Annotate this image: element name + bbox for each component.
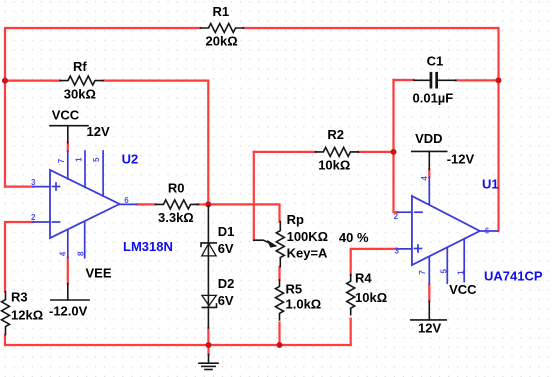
U2 pin 7 lead [67,151,69,179]
U1 pin 6 output lead [480,230,498,232]
ground [199,355,218,370]
svg-text:R3: R3 [11,290,28,305]
svg-text:3: 3 [395,246,400,255]
svg-text:Rp: Rp [287,212,304,227]
svg-text:12V: 12V [87,124,110,139]
U1 pin 7 lead [428,257,430,284]
wire top feedback right [244,28,499,231]
svg-text:30kΩ: 30kΩ [64,87,96,102]
svg-text:5: 5 [92,157,101,162]
power VCC U1 [411,282,477,335]
wire Rp bottom to R5 [278,267,280,280]
svg-text:6: 6 [485,226,490,235]
svg-text:VDD: VDD [415,131,442,146]
node R0 output junction [205,201,211,207]
svg-text:-12.0V: -12.0V [49,303,88,318]
svg-text:2: 2 [394,212,399,221]
wire U2 pin2 to R3 [5,222,33,292]
U1 pin 1 lead [463,239,465,282]
resistor R2 [315,127,358,172]
svg-text:VCC: VCC [52,108,80,123]
resistor R1 [201,4,244,48]
U2 pin 2 (-) lead [33,221,50,223]
svg-text:0.01µF: 0.01µF [413,91,454,106]
U2 plus mark [53,186,60,188]
wire R2 left [254,151,316,153]
resistor R5 [276,280,322,320]
potentiometer Rp [254,212,328,267]
svg-text:R2: R2 [327,127,344,142]
svg-text:8: 8 [76,251,85,256]
wire VCC stem U2 [67,143,69,151]
svg-text:2: 2 [31,213,36,222]
svg-text:3: 3 [31,178,36,187]
svg-text:12V: 12V [418,320,441,335]
svg-text:7: 7 [57,158,66,163]
svg-text:R4: R4 [355,270,372,285]
svg-text:6: 6 [124,196,129,205]
svg-text:LM318N: LM318N [123,239,173,254]
U1 pin 2 (-) lead [398,211,412,213]
wire Rp wiper [253,152,255,240]
svg-text:D2: D2 [218,276,235,291]
resistor Rf [60,59,103,102]
U2 pin 3 (+) lead [33,186,50,188]
wire node to Rp top [208,204,279,221]
wire U2 output [137,203,156,205]
svg-text:20kΩ: 20kΩ [206,34,238,49]
svg-text:1: 1 [75,157,84,162]
wire U1 pin7 to VCC [428,284,430,301]
svg-text:VCC: VCC [449,282,477,297]
svg-text:Key=A: Key=A [287,245,328,260]
node ground junction [206,342,212,348]
svg-text:12kΩ: 12kΩ [11,308,43,323]
resistor R4 [347,270,387,314]
svg-text:4: 4 [59,251,68,256]
wire U1 pin3 row [351,249,397,275]
svg-text:40 %: 40 % [339,230,369,245]
op-amp U1 triangle [412,196,480,265]
U1 pin 3 (+) lead [397,248,412,250]
resistor R0 [156,181,199,226]
svg-text:1: 1 [457,270,466,275]
wire C1 left vertical [394,80,398,212]
svg-text:5: 5 [440,269,449,274]
U2 pin 5 lead [102,151,104,196]
wire Rf row left [5,79,60,81]
svg-text:10kΩ: 10kΩ [318,158,350,173]
U2 pin 4 lead [67,229,69,257]
node R2-C1 junction [391,149,397,155]
power VEE U2 [49,265,112,318]
resistor R3 [2,290,44,335]
node Rf junction [2,78,8,84]
op-amp U1 [394,176,543,284]
wire R3 bottom [5,335,351,345]
wire top feedback left [5,28,201,187]
wire R4 bottom [350,319,352,345]
svg-text:D1: D1 [218,224,235,239]
U1 plus mark [415,248,422,250]
U1 pin 5 lead [446,248,448,284]
U2 pin 8 lead [84,221,86,257]
svg-text:7: 7 [418,270,427,275]
svg-text:6V: 6V [218,293,234,308]
power VCC U2 [50,108,110,143]
svg-text:10kΩ: 10kΩ [355,290,387,305]
node R5 bottom junction [277,342,283,348]
svg-text:1.0kΩ: 1.0kΩ [286,296,322,311]
U1 pin 4 lead [428,177,430,204]
svg-text:R0: R0 [168,181,185,196]
zener diode D2 [202,276,234,308]
svg-text:U1: U1 [482,177,499,192]
svg-text:VEE: VEE [86,265,112,280]
wire R0 to node [198,203,209,205]
svg-text:R1: R1 [213,4,230,19]
wire R2 right [358,151,393,153]
wire U2 pin3 [5,186,33,188]
U2 pin 6 output lead [120,203,137,205]
capacitor C1 [413,53,456,105]
svg-text:100KΩ: 100KΩ [287,229,329,244]
svg-text:UA741CP: UA741CP [484,269,543,284]
wire Rf row right [103,81,208,205]
wire R5 bottom [278,323,280,345]
svg-text:C1: C1 [427,53,444,68]
svg-text:Rf: Rf [73,59,87,74]
op-amp U2 [31,151,173,258]
wire U2 pin4 to VEE [67,258,69,284]
wire ground stub [207,345,209,355]
op-amp U2 triangle [50,170,120,238]
U1 minus mark [415,211,422,213]
U2 minus mark [53,221,60,223]
U2 pin 1 lead [84,151,86,187]
wire C1 right [456,79,499,81]
zener diode D1 [201,206,234,328]
svg-text:U2: U2 [122,151,139,166]
svg-text:-12V: -12V [447,151,475,166]
svg-text:6V: 6V [218,241,234,256]
wire VDD stem U1 [428,169,430,177]
svg-text:R5: R5 [286,281,303,296]
svg-text:4: 4 [420,176,429,181]
wire C1 left lead [394,79,415,81]
svg-text:3.3kΩ: 3.3kΩ [158,210,194,225]
power VDD U1 [412,131,475,169]
node C1 output junction [496,77,502,83]
wire D2 bottom to rail [207,328,209,345]
